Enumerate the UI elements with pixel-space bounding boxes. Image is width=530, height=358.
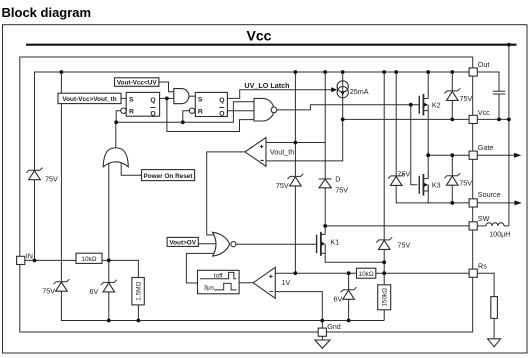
svg-text:R: R: [198, 109, 203, 116]
svg-text:75V: 75V: [460, 94, 473, 103]
svg-text:Gnd: Gnd: [327, 322, 341, 331]
svg-text:6V: 6V: [90, 287, 99, 296]
svg-text:D: D: [335, 174, 340, 183]
svg-text:75V: 75V: [45, 175, 58, 184]
svg-text:Vout-Vcc<UV: Vout-Vcc<UV: [117, 80, 158, 87]
svg-text:toff: toff: [214, 272, 223, 279]
svg-text:Rs: Rs: [478, 262, 487, 271]
svg-text:K1: K1: [331, 238, 340, 247]
svg-text:Vcc: Vcc: [247, 28, 272, 44]
svg-text:75V: 75V: [335, 186, 348, 195]
svg-text:100µH: 100µH: [489, 230, 510, 239]
svg-text:SW: SW: [478, 214, 490, 223]
svg-text:Block diagram: Block diagram: [2, 5, 92, 20]
svg-text:Vout-Vcc>Vout_th: Vout-Vcc>Vout_th: [62, 96, 116, 103]
svg-text:Vout>OV: Vout>OV: [169, 239, 196, 246]
svg-text:K3: K3: [432, 181, 441, 190]
svg-text:S: S: [129, 97, 134, 104]
svg-text:Power On Reset: Power On Reset: [143, 173, 193, 180]
svg-text:R: R: [129, 109, 134, 116]
svg-text:1.5MΩ: 1.5MΩ: [135, 281, 142, 300]
svg-text:S: S: [198, 97, 203, 104]
svg-text:Q: Q: [150, 110, 155, 117]
svg-text:Source: Source: [478, 190, 501, 199]
svg-text:75V: 75V: [42, 286, 55, 295]
svg-text:Q: Q: [219, 110, 224, 117]
svg-text:Q: Q: [150, 97, 155, 104]
svg-text:6V: 6V: [334, 295, 343, 304]
svg-text:10kΩ: 10kΩ: [359, 271, 374, 278]
svg-text:75V: 75V: [459, 179, 472, 188]
svg-text:1V: 1V: [282, 278, 291, 287]
svg-text:UV_LO Latch: UV_LO Latch: [244, 81, 289, 90]
svg-text:25mA: 25mA: [350, 87, 369, 96]
svg-text:75V: 75V: [398, 240, 411, 249]
svg-text:Out: Out: [478, 60, 490, 69]
svg-text:150kΩ: 150kΩ: [381, 288, 388, 307]
svg-text:IN: IN: [26, 251, 33, 260]
svg-text:10kΩ: 10kΩ: [81, 256, 96, 263]
svg-text:Gate: Gate: [478, 143, 494, 152]
svg-text:Vout_th: Vout_th: [270, 147, 294, 156]
svg-text:75V: 75V: [276, 181, 289, 190]
svg-text:K2: K2: [432, 101, 441, 110]
svg-text:Q: Q: [219, 97, 224, 104]
svg-text:Vcc: Vcc: [478, 108, 490, 117]
svg-text:3µs: 3µs: [204, 285, 214, 292]
svg-text:75V: 75V: [397, 170, 410, 179]
